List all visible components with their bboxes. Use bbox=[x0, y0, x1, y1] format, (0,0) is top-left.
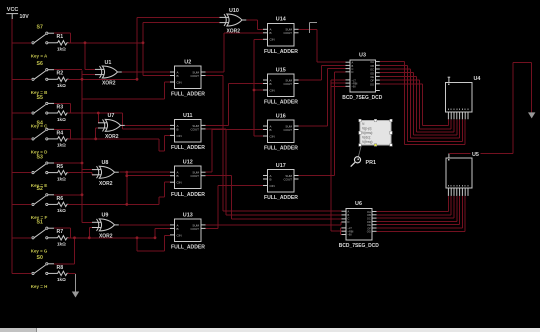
wire U12 COUT down to U6 C bbox=[206, 175, 232, 177]
svg-text:Key = H: Key = H bbox=[31, 284, 48, 290]
svg-text:COUT: COUT bbox=[284, 31, 293, 35]
wire row 5 top contact bbox=[54, 162, 82, 164]
wire row3 top drop bbox=[70, 103, 72, 113]
svg-text:VCC: VCC bbox=[7, 7, 19, 13]
wire U7 output to U11 A bbox=[125, 124, 170, 126]
switch S6 bbox=[32, 78, 34, 80]
svg-text:R7: R7 bbox=[57, 229, 64, 235]
wire VCC bus bbox=[11, 19, 13, 273]
resistor R1 bbox=[56, 41, 69, 45]
svg-text:CIN: CIN bbox=[177, 80, 182, 84]
wire U1 output to U2 A bbox=[122, 71, 170, 73]
svg-text:S6: S6 bbox=[37, 61, 43, 67]
svg-text:U14: U14 bbox=[276, 17, 286, 23]
svg-text:OE: OE bbox=[370, 75, 374, 79]
svg-text:OF: OF bbox=[370, 79, 374, 83]
probe PR1 symbol bbox=[358, 147, 361, 158]
svg-text:FULL_ADDER: FULL_ADDER bbox=[264, 100, 298, 106]
svg-text:U15: U15 bbox=[276, 67, 286, 73]
svg-text:S1: S1 bbox=[37, 220, 43, 226]
svg-text:B: B bbox=[270, 177, 272, 181]
svg-text:R8: R8 bbox=[57, 265, 64, 271]
svg-text:CIN: CIN bbox=[177, 181, 182, 185]
wire U13 COUT to U17 CIN bbox=[206, 227, 218, 229]
full adder U12 bbox=[175, 166, 202, 189]
resistor R7 bbox=[56, 236, 69, 240]
wire U3 outputs staircase to U4 pins bbox=[380, 61, 405, 63]
svg-text:U7: U7 bbox=[108, 113, 115, 119]
full adder U2 bbox=[175, 66, 202, 89]
svg-text:U8: U8 bbox=[102, 160, 109, 166]
resistor R2 bbox=[56, 77, 69, 81]
svg-text:B: B bbox=[270, 128, 272, 132]
wire row 3 from VCC bus bbox=[12, 112, 31, 114]
resistor R6 bbox=[56, 202, 69, 206]
switch S7 bbox=[32, 42, 34, 44]
wire U7 input 1 from row3 bbox=[97, 113, 99, 123]
full adder U17 bbox=[268, 170, 295, 193]
xor gate U9 bbox=[92, 221, 101, 223]
svg-text:1kΩ: 1kΩ bbox=[57, 277, 66, 282]
svg-text:R2: R2 bbox=[57, 71, 64, 77]
resistor R5 bbox=[56, 170, 69, 174]
resistor R3 bbox=[56, 111, 69, 115]
svg-text:XOR2: XOR2 bbox=[105, 134, 119, 140]
svg-text:FULL_ADDER: FULL_ADDER bbox=[264, 49, 298, 55]
svg-text:S0: S0 bbox=[37, 255, 43, 261]
svg-text:1kΩ: 1kΩ bbox=[57, 47, 66, 52]
resistor R4 bbox=[56, 137, 69, 141]
xor gate U7 bbox=[98, 122, 107, 124]
svg-text:COUT: COUT bbox=[191, 174, 200, 178]
svg-text:B: B bbox=[177, 127, 179, 131]
wire U16 CIN stub bbox=[254, 135, 263, 137]
svg-text:C: C bbox=[348, 216, 350, 220]
wire row 2 from VCC bus bbox=[12, 78, 31, 80]
full adder U13 bbox=[175, 219, 202, 242]
wire U11 CIN loop from row4 bbox=[158, 139, 160, 151]
wire U17 SUM to U3 D bbox=[299, 175, 335, 177]
svg-text:B: B bbox=[270, 31, 272, 35]
wire row 3 top contact bbox=[54, 102, 71, 104]
wire U13 B from row7 bbox=[154, 228, 156, 237]
svg-text:CIN: CIN bbox=[270, 134, 275, 138]
wire U6 outputs staircase to U5 pins bbox=[377, 211, 449, 213]
wire U12 CIN loop from row6 bbox=[158, 197, 160, 205]
wire row 7 from VCC bus bbox=[12, 237, 31, 239]
wire U3 control pins bracket bbox=[330, 80, 332, 86]
svg-text:OB: OB bbox=[370, 64, 374, 68]
wire U8 input 2 from row5 bbox=[91, 173, 93, 175]
svg-text:R5: R5 bbox=[57, 164, 64, 170]
wire U10 output to U14 A bbox=[246, 19, 257, 21]
svg-text:10V: 10V bbox=[20, 14, 30, 20]
ground symbol right bbox=[528, 112, 535, 118]
switch S5 bbox=[32, 112, 34, 114]
svg-text:FULL_ADDER: FULL_ADDER bbox=[264, 146, 298, 152]
svg-text:U12: U12 bbox=[183, 160, 193, 166]
svg-text:S7: S7 bbox=[37, 25, 43, 31]
U5 label bbox=[471, 151, 481, 157]
svg-text:B: B bbox=[348, 213, 350, 217]
svg-text:B: B bbox=[177, 227, 179, 231]
svg-text:CIN: CIN bbox=[177, 134, 182, 138]
svg-text:OG: OG bbox=[367, 230, 371, 234]
wire row 2 top contact bbox=[54, 69, 82, 71]
wire U6 control pins bracket bbox=[340, 228, 342, 235]
wire U14 SUM to U3 A bbox=[299, 28, 318, 30]
svg-text:D: D bbox=[352, 70, 354, 74]
BCD decoder U3 bbox=[350, 60, 375, 92]
svg-text:Key = G: Key = G bbox=[31, 248, 48, 254]
svg-text:XOR2: XOR2 bbox=[99, 181, 113, 187]
svg-text:CIN: CIN bbox=[270, 184, 275, 188]
svg-text:U16: U16 bbox=[276, 113, 286, 119]
svg-text:FULL_ADDER: FULL_ADDER bbox=[171, 145, 205, 151]
wire U15 CIN stub bbox=[254, 89, 263, 91]
svg-text:1kΩ: 1kΩ bbox=[57, 143, 66, 148]
wire row 5 signal after resistor bbox=[68, 172, 93, 174]
svg-text:A: A bbox=[348, 210, 350, 214]
full adder U11 bbox=[175, 119, 202, 141]
wire row 5 from VCC bus bbox=[12, 172, 31, 174]
wire U13 CIN loop from row7 bbox=[136, 238, 138, 251]
wire U7 input 2 from row4 bbox=[95, 128, 97, 139]
svg-text:U6: U6 bbox=[355, 201, 362, 207]
wire U9 input 1 from x82 bus bbox=[82, 221, 92, 223]
svg-text:OC: OC bbox=[370, 68, 374, 72]
wire U12 SUM to U16 B bbox=[206, 171, 212, 173]
wire row 4 from VCC bus bbox=[12, 138, 31, 140]
full adder U15 bbox=[268, 74, 295, 97]
svg-text:D: D bbox=[348, 220, 350, 224]
svg-text:V(freq):: V(freq): bbox=[362, 140, 373, 144]
svg-text:B: B bbox=[177, 174, 179, 178]
wire U10 input 2 / U2 B from row1 bbox=[142, 23, 144, 76]
node row7/row8 junction bbox=[73, 236, 76, 239]
svg-text:V:: V: bbox=[362, 122, 365, 126]
svg-text:COUT: COUT bbox=[191, 227, 200, 231]
wire U11 SUM to U15 B bbox=[206, 124, 229, 126]
wire U2 COUT down to U6 A bbox=[206, 75, 223, 77]
svg-text:S2: S2 bbox=[37, 186, 43, 192]
svg-text:1kΩ: 1kΩ bbox=[57, 176, 66, 181]
svg-text:FULL_ADDER: FULL_ADDER bbox=[171, 192, 205, 198]
wire U2 CIN loop from row2 bbox=[82, 98, 164, 100]
wire U8 input 1 from x82 bus bbox=[82, 169, 92, 171]
svg-text:~BI: ~BI bbox=[352, 85, 356, 89]
svg-text:1kΩ: 1kΩ bbox=[57, 208, 66, 213]
svg-text:XOR2: XOR2 bbox=[102, 81, 116, 87]
wire row1 top drop to row line bbox=[70, 33, 72, 43]
svg-text:U5: U5 bbox=[472, 152, 479, 158]
switch S3 bbox=[32, 172, 34, 174]
svg-text:CIN: CIN bbox=[270, 38, 275, 42]
svg-text:B: B bbox=[270, 82, 272, 86]
wire U2 SUM to U14 B bbox=[206, 71, 225, 73]
wire row 8 top contact bbox=[54, 263, 75, 265]
wire U14 COUT gray stub bbox=[309, 23, 311, 33]
svg-text:BCD_7SEG_DCD: BCD_7SEG_DCD bbox=[342, 95, 382, 101]
switch S2 bbox=[32, 203, 34, 205]
window scrollbar bottom bbox=[0, 328, 540, 332]
svg-text:U13: U13 bbox=[183, 212, 193, 218]
wire left channel bus x82 bbox=[81, 71, 83, 223]
svg-text:COUT: COUT bbox=[284, 177, 293, 181]
svg-text:CIN: CIN bbox=[177, 233, 182, 237]
wire row 6 from VCC bus bbox=[12, 203, 31, 205]
svg-text:PR1: PR1 bbox=[366, 160, 377, 166]
svg-text:Key = A: Key = A bbox=[31, 53, 48, 59]
svg-text:R4: R4 bbox=[57, 130, 64, 136]
wire row 1 top contact bbox=[54, 32, 71, 34]
wire U9 output to U13 A bbox=[119, 224, 170, 226]
svg-text:U2: U2 bbox=[184, 59, 191, 65]
svg-text:U4: U4 bbox=[474, 76, 481, 82]
svg-text:1kΩ: 1kΩ bbox=[57, 83, 66, 88]
switch S0 bbox=[32, 272, 34, 274]
node junctions on x82 bus bbox=[81, 78, 84, 81]
wire row7 top drop bbox=[70, 228, 72, 238]
wire U13 SUM to U6 D bbox=[206, 224, 342, 226]
xor gate U8 bbox=[92, 169, 101, 171]
seven-segment display U4 bbox=[446, 82, 473, 111]
wire row 6 top contact bbox=[54, 194, 82, 196]
svg-text:S4: S4 bbox=[37, 121, 43, 127]
svg-text:V(p-p):: V(p-p): bbox=[362, 126, 372, 130]
svg-text:S3: S3 bbox=[37, 154, 43, 160]
svg-text:CIN: CIN bbox=[270, 88, 275, 92]
wire row 4 top contact bbox=[54, 128, 71, 130]
probe readout box PR1 bbox=[360, 121, 391, 145]
BCD decoder U6 bbox=[346, 209, 372, 241]
wire U1 input 2 from x82 bus bbox=[82, 74, 95, 76]
svg-text:OG: OG bbox=[370, 82, 374, 86]
wire U14 CIN feed bbox=[253, 39, 255, 136]
svg-text:R6: R6 bbox=[57, 196, 64, 202]
wire U16 SUM to U3 C bbox=[299, 125, 328, 127]
wire row8 top link to row7 bbox=[74, 238, 76, 264]
wire row 6 signal after resistor bbox=[68, 203, 160, 205]
svg-text:S5: S5 bbox=[37, 95, 43, 101]
wire U12 B from link bbox=[127, 175, 170, 177]
wire U11 B from row3 bbox=[121, 113, 123, 129]
svg-text:FULL_ADDER: FULL_ADDER bbox=[264, 195, 298, 201]
svg-text:FULL_ADDER: FULL_ADDER bbox=[171, 92, 205, 98]
xor gate U10 bbox=[220, 16, 229, 18]
svg-text:U17: U17 bbox=[276, 163, 286, 169]
svg-text:~BI: ~BI bbox=[348, 233, 352, 237]
wire row 1 signal after resistor bbox=[68, 42, 144, 44]
svg-text:V(dc):: V(dc): bbox=[362, 135, 371, 139]
xor gate U1 bbox=[95, 68, 104, 70]
wire row 1 from VCC bus bbox=[12, 42, 31, 44]
wire U9 input 2 from row7 bbox=[88, 228, 90, 238]
seven-segment display U5 bbox=[446, 158, 472, 188]
svg-text:BCD_7SEG_DCD: BCD_7SEG_DCD bbox=[339, 243, 379, 249]
wire row4 top drop bbox=[70, 129, 72, 139]
wire row 3 signal after resistor bbox=[68, 112, 123, 114]
svg-text:U11: U11 bbox=[183, 113, 193, 119]
wire row 8 signal after resistor bbox=[68, 272, 76, 274]
svg-text:U9: U9 bbox=[102, 213, 109, 219]
svg-text:1kΩ: 1kΩ bbox=[57, 117, 66, 122]
svg-text:XOR2: XOR2 bbox=[99, 234, 113, 240]
resistor R8 bbox=[56, 271, 69, 275]
full adder U16 bbox=[268, 120, 295, 143]
full adder U14 bbox=[268, 23, 295, 46]
wire U1 input 1 from row1 bbox=[84, 43, 86, 70]
wire control link down to U6 controls bbox=[330, 86, 332, 231]
svg-text:FULL_ADDER: FULL_ADDER bbox=[171, 245, 205, 251]
svg-text:U3: U3 bbox=[359, 53, 366, 59]
switch S1 bbox=[32, 237, 34, 239]
wire U5 common to ground bbox=[449, 153, 513, 155]
wire row 4 signal after resistor bbox=[68, 138, 160, 140]
svg-text:V(rms):: V(rms): bbox=[362, 131, 373, 135]
wire row 7 top contact bbox=[54, 227, 71, 229]
svg-text:COUT: COUT bbox=[284, 82, 293, 86]
svg-text:B: B bbox=[177, 74, 179, 78]
svg-text:OA: OA bbox=[370, 60, 374, 64]
svg-text:R1: R1 bbox=[57, 34, 64, 40]
svg-text:COUT: COUT bbox=[191, 74, 200, 78]
switch S4 bbox=[32, 138, 34, 140]
wire U11 COUT down to U6 B bbox=[206, 128, 226, 130]
svg-text:U1: U1 bbox=[105, 60, 112, 66]
ground symbol left bbox=[75, 274, 77, 291]
wire U8 output to U12 A bbox=[119, 171, 170, 173]
svg-text:1kΩ: 1kΩ bbox=[57, 242, 66, 247]
svg-text:COUT: COUT bbox=[284, 128, 293, 132]
wire row 8 from VCC bus bbox=[12, 272, 31, 274]
svg-text:OD: OD bbox=[370, 71, 374, 75]
svg-text:XOR2: XOR2 bbox=[227, 29, 241, 35]
svg-text:R3: R3 bbox=[57, 104, 64, 110]
wire row 7 signal after resistor bbox=[68, 237, 156, 239]
svg-text:U10: U10 bbox=[229, 8, 239, 14]
wire U15 SUM to U3 B bbox=[299, 79, 322, 81]
wire row 2 signal after resistor bbox=[68, 78, 138, 80]
wire row6 link up to U8 output net bbox=[126, 172, 128, 204]
wire U10 input 1 from row2 bbox=[136, 17, 138, 79]
svg-text:COUT: COUT bbox=[191, 127, 200, 131]
